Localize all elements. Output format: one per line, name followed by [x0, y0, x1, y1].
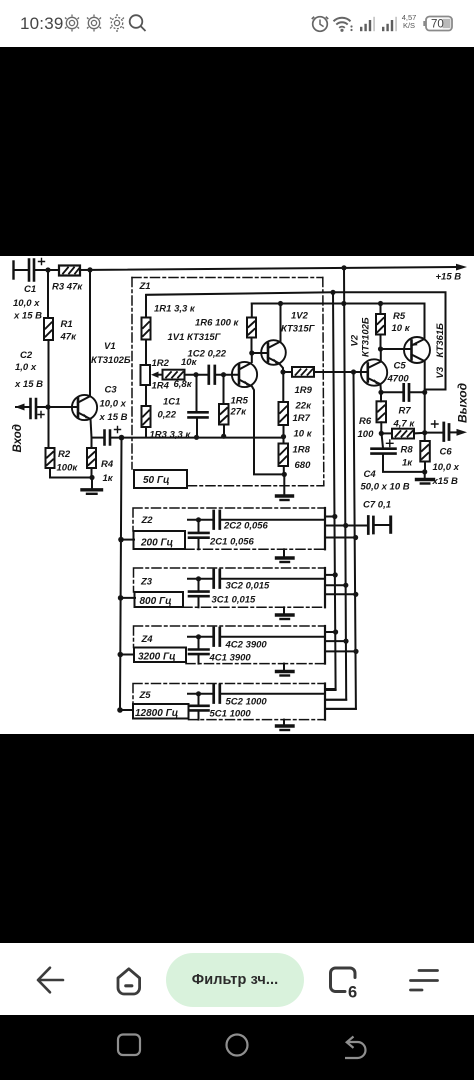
svg-text:1к: 1к [103, 473, 114, 484]
svg-text:1R8: 1R8 [293, 445, 311, 456]
svg-text:1к: 1к [402, 458, 413, 469]
node Z2 tap [118, 537, 124, 543]
capacitor 1C1 [189, 411, 208, 414]
ground Z4 [283, 664, 285, 670]
Z5 right edge solid [324, 684, 326, 720]
resistor 1R6 [247, 318, 256, 338]
svg-text:27к: 27к [230, 407, 248, 418]
wire Z4 stub2 [325, 640, 346, 642]
Z3 right edge solid [324, 568, 326, 607]
resistor R5 [376, 314, 385, 335]
signal bars 1 [360, 17, 375, 31]
50 Гц box [134, 470, 187, 488]
signal bars 2 [382, 17, 397, 31]
svg-text:12800 Гц: 12800 Гц [135, 708, 178, 719]
capacitor C7 [368, 517, 373, 534]
capacitor 4C1 [198, 637, 200, 649]
wire 1R7 top lead [282, 372, 284, 402]
wire R8 bottom [424, 462, 426, 472]
wire V2e to C5 [381, 391, 402, 393]
svg-text:70: 70 [431, 19, 444, 31]
svg-text:Выход: Выход [456, 383, 470, 423]
Z2 block border [133, 508, 325, 549]
ground Z1 [283, 474, 285, 494]
labels Z2 [140, 500, 391, 549]
node R7-R8-C6 [422, 430, 427, 435]
wire R6 top lead [380, 392, 382, 401]
resistor 1R9 [292, 367, 314, 377]
svg-text:V1: V1 [104, 341, 116, 352]
svg-text:x15 В: x15 В [432, 476, 458, 487]
wire rail right of R3 [80, 267, 456, 270]
svg-text:10,0 x: 10,0 x [433, 462, 460, 473]
node 1V2e-1R9-1R7 [280, 369, 285, 374]
svg-text:3200 Гц: 3200 Гц [138, 652, 176, 663]
ground Z5 [283, 720, 285, 725]
+15V arrow head [456, 264, 467, 271]
node bus3 top [351, 369, 356, 374]
wire C4 top lead [382, 433, 384, 448]
wire tap to Z3 box [121, 597, 135, 599]
node Z5 tap [117, 707, 123, 713]
capacitor 3C1 [198, 579, 200, 591]
Z3 block border [134, 568, 326, 607]
wire C2 to V1 base [38, 406, 78, 408]
svg-text:4С2 3900: 4С2 3900 [225, 640, 268, 651]
svg-text:50 Гц: 50 Гц [143, 475, 170, 486]
wifi [334, 18, 353, 32]
notif icon 3 [110, 14, 125, 33]
svg-text:С6: С6 [440, 447, 453, 458]
svg-text:R8: R8 [401, 445, 414, 456]
black band above schematic [0, 47, 474, 256]
node rail-R1 [45, 267, 50, 272]
wire R2 top lead [48, 407, 50, 448]
node V2e-C5-R6 [378, 390, 383, 395]
wire R1 top lead [47, 270, 49, 318]
transistor V1 [72, 395, 97, 420]
wire tap to Z2 box [121, 539, 134, 541]
battery [425, 17, 453, 31]
svg-text:5С2 1000: 5С2 1000 [226, 697, 268, 708]
Z2 right edge solid [324, 508, 326, 549]
wire Z5 inner [188, 693, 212, 695]
wire C5 to V3 collector node [411, 391, 425, 393]
wire 1V2 collector up [280, 304, 282, 342]
svg-text:3С1 0,015: 3С1 0,015 [212, 595, 257, 606]
svg-text:10,0 x: 10,0 x [100, 399, 127, 410]
ground Z2 [283, 549, 285, 556]
wire bus2 [325, 268, 346, 700]
transistor V3 [404, 337, 430, 363]
labels Z1 interior [139, 281, 316, 486]
wire feedback y292 to loop [146, 292, 446, 389]
transistor 1V2 [261, 340, 286, 365]
Z4 right edge solid [324, 626, 326, 664]
wire Z5 stub2 [325, 699, 346, 701]
wire Z3 stub1 [325, 574, 336, 576]
node Z3 tap [118, 595, 124, 601]
node R6-R7-C4 [379, 431, 384, 436]
status bar [0, 0, 474, 47]
ground output section [424, 472, 426, 478]
node R5 top [378, 301, 383, 306]
node 1V2 collector [278, 301, 283, 306]
wire V3 emitter up [424, 304, 426, 339]
labels Z4 [138, 634, 267, 664]
svg-text:КТ3102Б: КТ3102Б [91, 355, 131, 366]
wire 1R7 to 1R8 [283, 425, 285, 444]
wire R2 bottom [49, 468, 51, 478]
svg-text:C4: C4 [364, 469, 377, 480]
svg-text:Z2: Z2 [141, 515, 154, 526]
svg-text:1V1 КТ315Г: 1V1 КТ315Г [168, 332, 222, 343]
capacitor 5C1 [198, 694, 200, 705]
800 Гц box [135, 592, 184, 607]
svg-text:C2: C2 [20, 350, 33, 361]
svg-text:R5: R5 [393, 311, 406, 322]
capacitor C1 [29, 260, 34, 281]
svg-text:0,22: 0,22 [158, 410, 177, 421]
wire +15V rail [14, 269, 29, 271]
svg-text:800 Гц: 800 Гц [140, 596, 172, 607]
svg-text:R7: R7 [399, 406, 412, 417]
svg-text:22к: 22к [295, 401, 313, 412]
wire R7 to node [414, 432, 425, 435]
potentiometer 1R2 [141, 365, 151, 385]
tabs icon [331, 968, 356, 992]
svg-text:R6: R6 [359, 416, 372, 427]
capacitor 5C2 [214, 685, 220, 703]
svg-text:1,0 x: 1,0 x [15, 362, 37, 373]
wire Z2 stub3 [325, 537, 356, 539]
alarm clock [312, 17, 328, 32]
svg-text:Z5: Z5 [139, 690, 152, 701]
node 1R5 bottom [221, 434, 226, 439]
svg-text:x 15 B: x 15 B [99, 412, 128, 423]
schematic area [0, 256, 474, 734]
svg-text:КТ3102Б: КТ3102Б [361, 317, 372, 357]
wire 1C2 to 1V1 base [217, 374, 240, 376]
wire Z4 stub1 [325, 631, 336, 633]
wire V2 emitter down [380, 385, 383, 392]
wire 1R6 top lead corner [251, 304, 253, 318]
resistor R3 [59, 266, 80, 276]
svg-text:Z1: Z1 [139, 281, 151, 292]
wire R1 bottom to base node [48, 340, 50, 407]
labels Z3 [140, 577, 271, 608]
output arrow head [457, 429, 468, 436]
wire C6 to output arrow [451, 431, 458, 433]
home circle [227, 1035, 248, 1056]
notif icon 2 [87, 15, 101, 32]
transistor V2 [361, 359, 387, 385]
wire bus1 [325, 292, 336, 689]
svg-text:1R2: 1R2 [152, 358, 170, 369]
wire 1V2 emitter down [280, 365, 283, 373]
svg-text:1R1 3,3 к: 1R1 3,3 к [154, 304, 196, 315]
home icon [118, 969, 140, 994]
resistor R2 [46, 448, 55, 468]
search icon [130, 15, 146, 31]
recent apps square [118, 1035, 140, 1056]
200 Гц box [134, 531, 186, 549]
labels output section [350, 311, 470, 493]
input arrow Вход [16, 406, 30, 408]
transistor 1V1 [232, 362, 257, 387]
wire 1V1 collector up [251, 353, 253, 362]
wire V2 collector up [380, 349, 382, 361]
bottom navigation bar [0, 943, 474, 1015]
svg-text:C1: C1 [24, 284, 36, 295]
node bus2 y303 [341, 301, 346, 306]
wire R8 top lead [424, 433, 426, 441]
svg-text:x 15 B: x 15 B [14, 379, 43, 390]
12800 Гц box [133, 704, 189, 719]
svg-text:10к: 10к [181, 357, 198, 368]
node bus1 top [330, 290, 335, 295]
wire node to 1V2 base [252, 352, 268, 354]
wire +supply y303 [252, 303, 425, 305]
capacitor 2C1 [198, 520, 200, 532]
node rail-bus2 [341, 265, 346, 270]
node Z4 tap [118, 652, 124, 658]
menu/sort icon [411, 971, 438, 991]
svg-text:50,0 х 10 В: 50,0 х 10 В [361, 482, 410, 493]
svg-text:5С1 1000: 5С1 1000 [210, 709, 252, 720]
wire Z2 inner [188, 519, 212, 521]
svg-text:1R9: 1R9 [295, 385, 313, 396]
svg-text:Вход: Вход [12, 424, 24, 452]
ground Z3 [283, 607, 285, 613]
capacitor 3C2 [214, 570, 220, 588]
wire R7 left lead [381, 432, 392, 434]
wire V1 emitter down [91, 419, 92, 438]
wire emitter to C3 [92, 437, 105, 439]
capacitor C6 [444, 423, 449, 441]
wire V3 collector down [424, 362, 426, 392]
svg-text:10,0 x: 10,0 x [13, 298, 40, 309]
node 1V1c-1R6-1V2b [249, 350, 254, 355]
wire Z4 stub3 [325, 650, 356, 652]
3200 Гц box [134, 648, 186, 663]
wire 1C1 leads [196, 375, 199, 438]
resistor 1R7 [279, 402, 289, 425]
wire tap to Z4 box [120, 654, 134, 656]
svg-text:1R5: 1R5 [231, 396, 249, 407]
node 1C1 top [193, 372, 198, 377]
node base-R1-R2 [45, 404, 50, 409]
resistor 1R8 [279, 444, 289, 467]
capacitor 1C2 [209, 366, 215, 384]
svg-text:1V2: 1V2 [291, 311, 309, 322]
svg-text:2С2 0,056: 2С2 0,056 [223, 521, 269, 532]
svg-text:R1: R1 [61, 319, 73, 330]
wire 1R3 bottom [145, 427, 147, 437]
label C1 [12, 272, 461, 485]
node C3 junction [119, 435, 125, 441]
svg-text:4700: 4700 [387, 374, 410, 385]
wire 1R4 to 1C2 [185, 374, 208, 376]
resistor 1R1 [142, 318, 151, 340]
labels Z5 [135, 690, 267, 720]
svg-text:V2: V2 [350, 334, 361, 346]
wire 1R1 top lead [145, 295, 147, 318]
wire C1 to R3 [36, 269, 60, 271]
resistor R4 [87, 448, 96, 468]
node 1R5 top [221, 372, 226, 377]
resistor R8 [420, 441, 430, 462]
wire Z3 stub3 [325, 593, 356, 595]
capacitor 4C2 [214, 628, 220, 646]
wire C4 bottom to ground rail [383, 455, 425, 472]
gesture bar [0, 1015, 474, 1080]
svg-text:100к: 100к [57, 463, 79, 474]
wire Z2 stub1 [325, 516, 336, 518]
wire Z5 stub3 [325, 708, 356, 710]
node ground output [422, 469, 427, 474]
svg-text:Z4: Z4 [141, 634, 154, 645]
wire bottom R2-R4 [50, 477, 92, 479]
svg-text:С3: С3 [105, 385, 118, 396]
wire R4 leads [91, 438, 93, 478]
wire R6 bottom [380, 422, 382, 433]
resistor 1R4 [163, 370, 185, 380]
svg-text:x 15 B: x 15 B [13, 311, 42, 322]
wire bus3 [325, 372, 356, 709]
capacitor C2 [31, 399, 37, 418]
wire Z3 inner [188, 578, 212, 580]
wire main signal line down [120, 438, 122, 710]
node rail-V1 collector [87, 267, 92, 272]
capacitor C4 [372, 447, 396, 450]
svg-text:1С1: 1С1 [163, 397, 180, 408]
wire R5 top lead [380, 304, 382, 315]
wire tap to Z5 box [120, 709, 133, 711]
svg-text:100: 100 [358, 429, 375, 440]
capacitor C5 [404, 384, 409, 400]
wire 1R9 to V2 base [314, 371, 368, 373]
notif icon 1 [66, 17, 77, 28]
Z1 block dash-dot border [132, 278, 324, 486]
svg-text:R3 47к: R3 47к [52, 282, 83, 293]
svg-text:Z3: Z3 [140, 577, 153, 588]
svg-text:1R3 3,3 к: 1R3 3,3 к [150, 430, 192, 441]
wire R5 bottom to V3 base [381, 335, 412, 350]
svg-text:4С1 3900: 4С1 3900 [209, 653, 252, 664]
svg-text:6,8к: 6,8к [174, 379, 193, 390]
svg-text:R2: R2 [58, 449, 71, 460]
resistor R6 [377, 401, 387, 422]
resistor R1 [44, 318, 53, 340]
wire down to R7 node [424, 392, 426, 432]
svg-text:200 Гц: 200 Гц [140, 538, 173, 549]
svg-text:V3: V3 [435, 366, 446, 378]
node 1C1 bottom [194, 435, 199, 440]
node R5-V2collector-V3base [378, 346, 383, 351]
capacitor 2C2 [214, 511, 220, 529]
wire Z5 stub1 [325, 689, 336, 691]
svg-text:10 к: 10 к [392, 323, 411, 334]
svg-text:3С2 0,015: 3С2 0,015 [226, 581, 271, 592]
wire 1R5 leads [223, 375, 226, 437]
input terminal bar of +15V rail [12, 262, 14, 279]
back arrow [38, 968, 438, 994]
svg-text:С5: С5 [394, 361, 407, 372]
wire 1R6 bottom to node [251, 338, 253, 354]
black band below schematic [0, 734, 474, 943]
svg-text:С7 0,1: С7 0,1 [363, 500, 391, 511]
svg-text:2С1 0,056: 2С1 0,056 [209, 537, 255, 548]
ground main amp [91, 478, 93, 489]
resistor 1R5 [219, 404, 229, 425]
node C5-V3c-loop [422, 390, 427, 395]
wire Z4 inner [188, 636, 212, 638]
back arrow curved [345, 1042, 366, 1058]
svg-text:+15 В: +15 В [436, 272, 462, 283]
resistor 1R3 [142, 406, 151, 427]
wire pot to 1R3 [145, 385, 147, 406]
wire Z3 stub2 [325, 584, 346, 586]
node 1R8 bottom [282, 472, 287, 477]
node Z1 bottom rail end [281, 434, 286, 439]
wire V1 collector up [89, 270, 91, 397]
svg-text:47к: 47к [60, 332, 78, 343]
svg-text:1R4: 1R4 [152, 381, 170, 392]
capacitor C3 [105, 431, 111, 445]
svg-text:6: 6 [348, 984, 357, 1002]
svg-text:680: 680 [295, 460, 312, 471]
wire 1R8 bottom lead [283, 466, 285, 474]
resistor R7 [392, 429, 414, 439]
svg-text:1R7: 1R7 [293, 413, 311, 424]
svg-text:R4: R4 [101, 459, 114, 470]
wire Z2 stub2 to C7 [325, 525, 367, 527]
wire 1R1 to pot [145, 340, 147, 366]
wire C3 to Z1 bottom rail [112, 437, 284, 439]
svg-text:1R6 100 к: 1R6 100 к [195, 318, 240, 329]
node R2R4 ground [89, 475, 94, 480]
Z5 block border [133, 684, 325, 720]
svg-text:КТ315Г: КТ315Г [281, 324, 316, 335]
wire node to C6 [425, 432, 442, 434]
svg-text:10 к: 10 к [294, 429, 313, 440]
Z4 block border [134, 626, 326, 664]
wire 1R9 left lead [283, 371, 292, 373]
svg-text:КТ361Б: КТ361Б [435, 323, 446, 358]
wire 1V1 emitter down [252, 387, 285, 475]
svg-text:4,7 к: 4,7 к [393, 419, 416, 430]
